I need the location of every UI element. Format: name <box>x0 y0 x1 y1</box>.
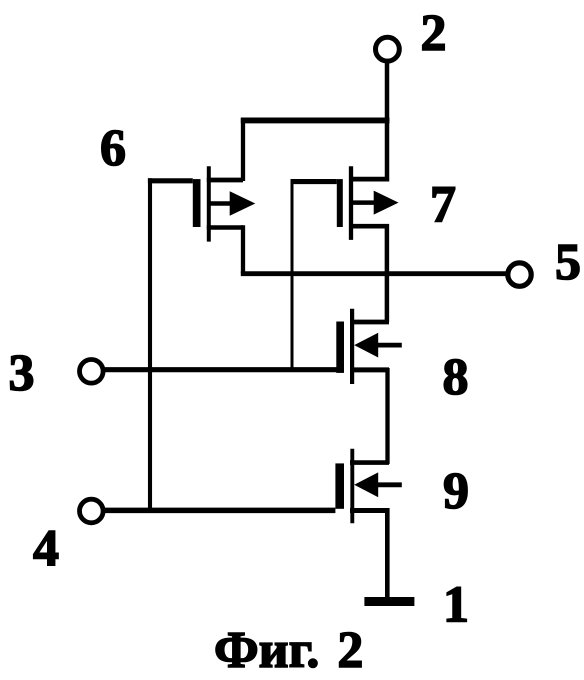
svg-text:9: 9 <box>443 463 469 520</box>
svg-text:7: 7 <box>430 177 456 234</box>
svg-text:6: 6 <box>100 120 126 177</box>
svg-text:2: 2 <box>421 5 447 62</box>
svg-text:1: 1 <box>443 577 469 634</box>
svg-text:5: 5 <box>555 234 581 291</box>
svg-text:8: 8 <box>443 349 469 406</box>
svg-text:3: 3 <box>9 345 35 402</box>
svg-text:Фиг. 2: Фиг. 2 <box>214 622 363 679</box>
svg-text:4: 4 <box>33 520 59 577</box>
